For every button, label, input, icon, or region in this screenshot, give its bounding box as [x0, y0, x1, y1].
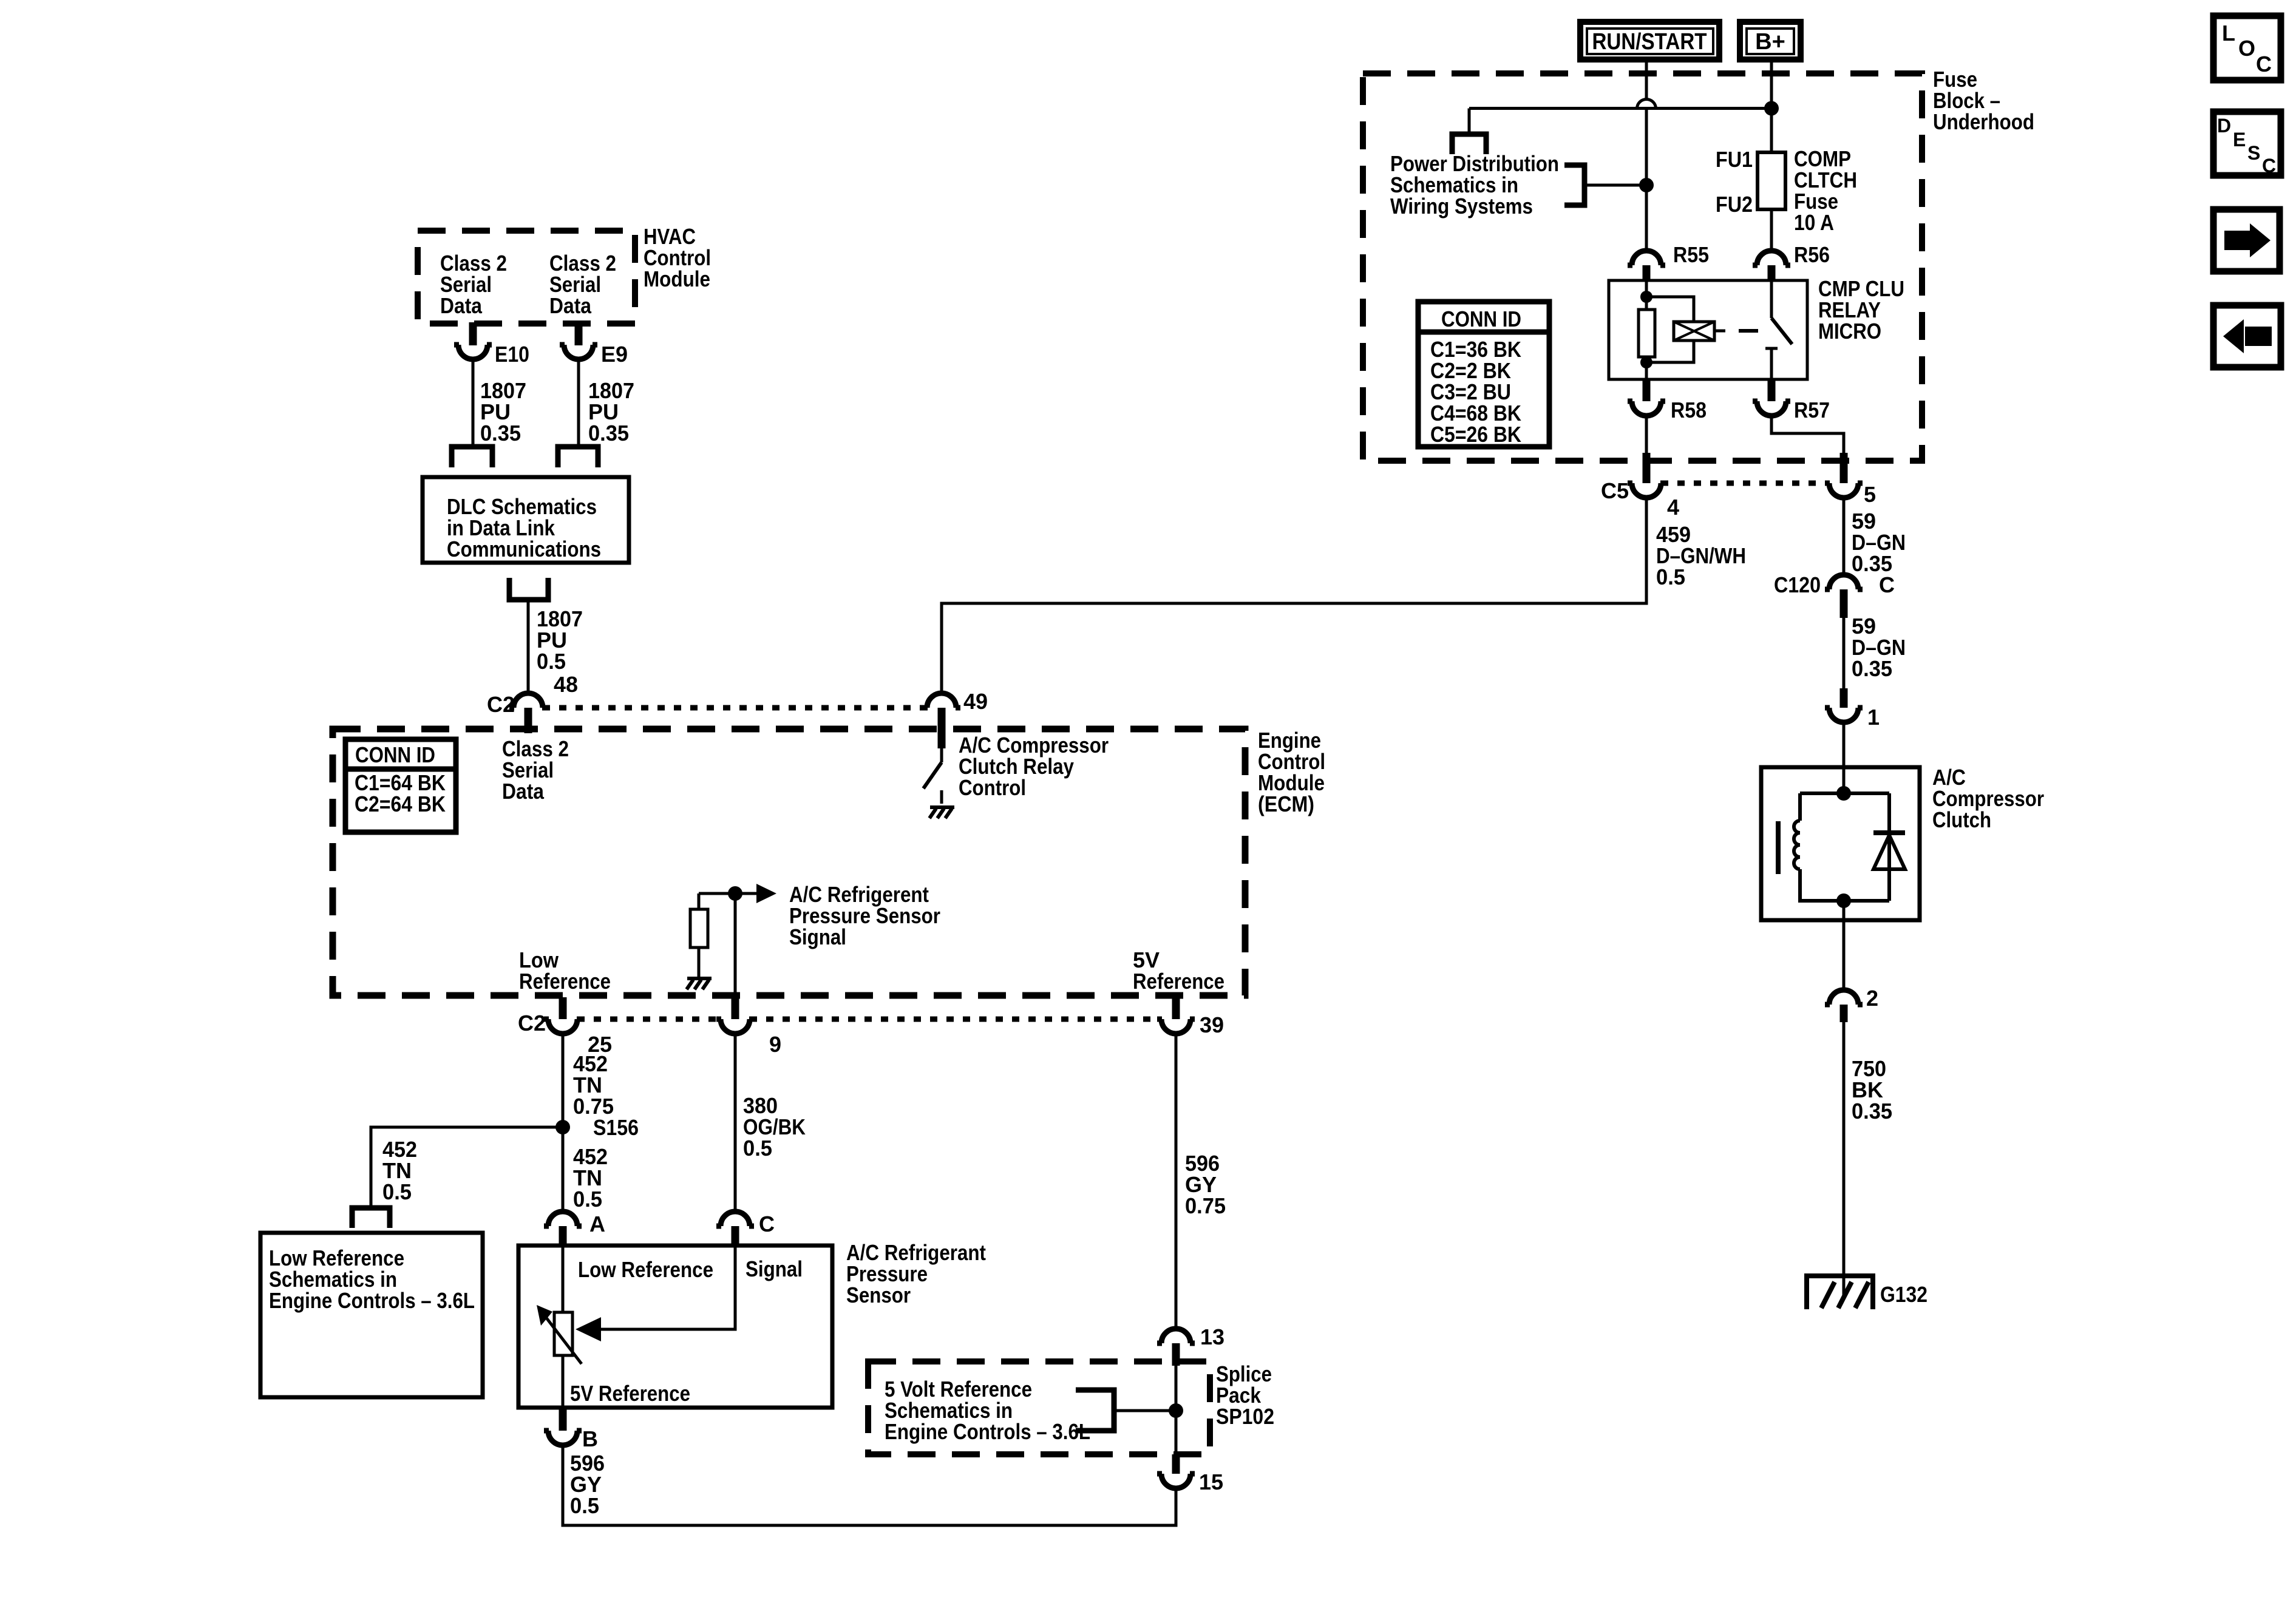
- label wire 59 D-GN 0.35 (upper): [1852, 509, 1906, 576]
- clutch coil loop: [1800, 793, 1889, 901]
- svg-text:0.35: 0.35: [480, 421, 521, 446]
- connector clutch pin 1: [1825, 688, 1863, 722]
- fuse block CONN ID table: [1418, 302, 1549, 447]
- svg-text:CONN ID: CONN ID: [1441, 307, 1521, 331]
- svg-text:FU2: FU2: [1716, 192, 1753, 217]
- svg-text:Reference: Reference: [519, 969, 611, 994]
- connector R57: [1753, 379, 1790, 416]
- svg-text:0.5: 0.5: [382, 1179, 412, 1204]
- label 48: [554, 672, 578, 697]
- relay solenoid symbol: [1674, 322, 1714, 341]
- svg-text:5: 5: [1864, 482, 1876, 507]
- wire RUN/START down (above hop): [1645, 63, 1648, 100]
- svg-text:E9: E9: [601, 342, 628, 367]
- svg-text:15: 15: [1199, 1470, 1223, 1494]
- A/C Refrigerant Pressure Sensor box: [518, 1246, 832, 1408]
- svg-text:Data: Data: [502, 779, 545, 804]
- svg-text:2: 2: [1866, 986, 1878, 1011]
- label 5 Volt Reference Schematics in Engine Controls - 3.6L: [885, 1377, 1090, 1444]
- label Splice Pack SP102: [1216, 1361, 1274, 1429]
- svg-text:E10: E10: [495, 342, 529, 367]
- relay coil junction top: [1640, 291, 1652, 303]
- label C2 (ECM bottom connector): [518, 1011, 546, 1036]
- svg-text:39: 39: [1200, 1012, 1224, 1037]
- svg-text:Engine Controls – 3.6L: Engine Controls – 3.6L: [269, 1288, 475, 1313]
- 5 Volt Reference box (dashed): [868, 1361, 1210, 1454]
- svg-text:Module: Module: [644, 266, 710, 291]
- label A: [589, 1212, 605, 1236]
- svg-text:0.5: 0.5: [573, 1187, 602, 1212]
- svg-text:C: C: [1879, 572, 1895, 597]
- label wire 750 BK 0.35: [1852, 1056, 1892, 1124]
- label wire 380 OG/BK 0.5: [743, 1093, 806, 1161]
- label 5V Reference (sensor): [570, 1381, 690, 1406]
- off-page bracket below DLC: [509, 578, 548, 600]
- label FU2: [1716, 192, 1753, 217]
- clutch top junction: [1836, 786, 1851, 801]
- wire pin1 to clutch box: [1843, 722, 1846, 767]
- svg-text:4: 4: [1667, 495, 1679, 520]
- label wire 596 GY 0.5: [570, 1451, 605, 1518]
- svg-text:0.5: 0.5: [743, 1136, 772, 1161]
- label HVAC Control Module: [644, 224, 711, 291]
- svg-text:C2: C2: [487, 692, 515, 717]
- wire pin13 to pin15: [1175, 1366, 1178, 1454]
- splice S156: [555, 1120, 570, 1134]
- label wire 1807 PU 0.5: [537, 606, 583, 674]
- label wire 59 D-GN 0.35 (lower): [1852, 614, 1906, 681]
- svg-text:O: O: [2238, 36, 2255, 61]
- label Class 2 Serial Data (ECM): [502, 736, 569, 804]
- svg-text:D: D: [2217, 115, 2231, 137]
- connector pin A: [544, 1212, 582, 1246]
- svg-text:Signal: Signal: [746, 1256, 803, 1281]
- label Engine Control Module (ECM): [1258, 728, 1325, 816]
- label 9: [769, 1032, 781, 1057]
- label COMP CLTCH Fuse 10 A: [1794, 146, 1857, 235]
- svg-text:9: 9: [769, 1032, 781, 1057]
- connector face dotted row 9-39: [750, 1017, 1161, 1022]
- connector C120 pin C: [1825, 575, 1863, 618]
- connector R55: [1628, 251, 1665, 281]
- svg-text:R56: R56: [1794, 242, 1830, 267]
- svg-text:Reference: Reference: [1133, 969, 1224, 994]
- off-page bracket (power distribution top): [1452, 134, 1486, 154]
- label C120: [1774, 572, 1821, 597]
- clutch coil windings: [1794, 821, 1800, 869]
- connector pin 49: [923, 693, 960, 748]
- label A/C Refrigerent Pressure Sensor Signal: [789, 882, 940, 949]
- svg-text:C2=64 BK: C2=64 BK: [355, 792, 446, 816]
- label 4: [1667, 495, 1679, 520]
- wire E9 to off-page: [577, 359, 580, 446]
- wire B+ down to fuse: [1770, 63, 1773, 152]
- label 39: [1200, 1012, 1224, 1037]
- fuse COMP CLTCH: [1758, 152, 1785, 209]
- label R58: [1671, 398, 1707, 422]
- svg-text:0.5: 0.5: [537, 649, 566, 674]
- sensor signal arrowhead: [576, 1317, 601, 1341]
- off-page bracket (power distribution side): [1564, 165, 1584, 205]
- label DLC Schematics in Data Link Communications: [447, 494, 601, 561]
- label 25: [588, 1032, 612, 1057]
- connector clutch pin 2: [1825, 990, 1863, 1022]
- wire drop to power distribution bracket: [1468, 109, 1471, 135]
- label G132: [1880, 1282, 1927, 1307]
- DESC icon box: [2213, 112, 2281, 177]
- svg-text:0.75: 0.75: [1185, 1193, 1226, 1218]
- label 1: [1867, 705, 1880, 730]
- label C (C120): [1879, 572, 1895, 597]
- off-page bracket (5 volt reference): [1076, 1390, 1114, 1431]
- label Low Reference (ECM): [519, 947, 611, 994]
- connector pin 15: [1157, 1454, 1195, 1488]
- off-page bracket above DLC (E10): [452, 447, 492, 467]
- svg-text:B: B: [582, 1426, 598, 1451]
- label Signal (sensor): [746, 1256, 803, 1281]
- wire R58 to C5: [1645, 416, 1648, 453]
- wire pin 9 internal: [734, 893, 737, 996]
- back arrow icon box: [2213, 305, 2281, 367]
- connector C5 pin 5: [1825, 453, 1863, 498]
- svg-text:Data: Data: [549, 293, 592, 318]
- next arrow icon box: [2213, 209, 2280, 271]
- connector face dotted row 25-9: [577, 1017, 721, 1022]
- label C: [759, 1212, 775, 1236]
- ECM internal resistor: [690, 893, 708, 977]
- label wire 1807 PU 0.35 (E10): [480, 378, 526, 446]
- connector pin 25: [544, 997, 582, 1034]
- label R55: [1673, 242, 1709, 267]
- A/C Compressor Clutch box: [1761, 767, 1920, 920]
- svg-text:Clutch: Clutch: [1932, 807, 1991, 832]
- clutch feed wire: [1843, 767, 1846, 793]
- label E10: [495, 342, 529, 367]
- label 15: [1199, 1470, 1223, 1494]
- Engine Control Module box (dashed): [333, 729, 1245, 995]
- clutch diode: [1873, 833, 1905, 869]
- ECM driver switch to ground (pin 49): [923, 748, 954, 818]
- connector pin 39: [1157, 997, 1195, 1034]
- svg-text:SP102: SP102: [1216, 1404, 1274, 1429]
- label Fuse Block - Underhood: [1933, 67, 2034, 134]
- svg-text:FU1: FU1: [1716, 147, 1753, 172]
- svg-text:Low Reference: Low Reference: [578, 1257, 713, 1282]
- svg-text:CONN ID: CONN ID: [355, 742, 435, 767]
- svg-text:RUN/START: RUN/START: [1592, 29, 1707, 55]
- connector pin 13: [1157, 1329, 1195, 1366]
- label C5: [1601, 478, 1629, 503]
- connector pin 9: [716, 997, 754, 1034]
- svg-text:C: C: [759, 1212, 775, 1236]
- label 5V Reference (ECM): [1133, 947, 1224, 994]
- label wire 1807 PU 0.35 (E9): [588, 378, 634, 446]
- label A/C Refrigerant Pressure Sensor: [846, 1240, 986, 1307]
- svg-text:S156: S156: [593, 1115, 639, 1140]
- connector pin B: [544, 1408, 582, 1445]
- svg-text:C: C: [2262, 155, 2276, 177]
- wire branch to low reference off-page: [371, 1127, 563, 1208]
- sensor signal internal wire: [601, 1246, 735, 1329]
- svg-text:Wiring Systems: Wiring Systems: [1390, 194, 1533, 219]
- wire 750 BK to ground: [1843, 1022, 1846, 1295]
- relay actuating dash: [1739, 329, 1758, 333]
- relay coil resistor: [1639, 310, 1655, 357]
- off-page bracket above Low Reference box: [352, 1208, 390, 1228]
- wire bracket to splice: [1114, 1409, 1176, 1412]
- potentiometer (sensor): [537, 1246, 582, 1408]
- svg-text:C5: C5: [1601, 478, 1629, 503]
- CMP CLU relay box: [1609, 280, 1807, 379]
- label Low Reference (sensor): [578, 1257, 713, 1282]
- label 5: [1864, 482, 1876, 507]
- ECM CONN ID table: [345, 739, 456, 832]
- wire R57 to pin 5: [1771, 416, 1844, 453]
- svg-text:MICRO: MICRO: [1818, 319, 1881, 344]
- label Class 2 Serial Data (HVAC right): [549, 251, 616, 318]
- connector face line C2 (dotted row): [543, 705, 927, 711]
- label 2: [1866, 986, 1878, 1011]
- svg-text:Communications: Communications: [447, 537, 601, 561]
- relay solenoid lead: [1714, 330, 1725, 333]
- Fuse Block - Underhood box (dashed): [1363, 73, 1922, 461]
- label Power Distribution Schematics in Wiring Systems: [1390, 151, 1559, 219]
- wire 459 D-GN/WH to ECM pin 49: [942, 498, 1646, 693]
- svg-text:C120: C120: [1774, 572, 1821, 597]
- svg-text:Sensor: Sensor: [846, 1283, 911, 1307]
- ground G132: [1807, 1276, 1873, 1309]
- relay coil parallel loop: [1646, 297, 1694, 362]
- relay coil junction bottom: [1640, 356, 1652, 368]
- svg-text:Signal: Signal: [789, 924, 846, 949]
- svg-text:R55: R55: [1673, 242, 1709, 267]
- label E9: [601, 342, 628, 367]
- label R56: [1794, 242, 1830, 267]
- label wire 452 TN 0.75: [573, 1051, 614, 1119]
- svg-text:10 A: 10 A: [1794, 210, 1834, 235]
- svg-text:R57: R57: [1794, 398, 1830, 422]
- ECM internal resistor ground: [687, 978, 712, 989]
- label A/C Compressor Clutch Relay Control: [959, 733, 1109, 800]
- connector R56: [1753, 251, 1790, 281]
- label Class 2 Serial Data (HVAC left): [440, 251, 507, 318]
- LOC icon box: [2213, 16, 2281, 80]
- wire 452 TN pin25 to S156 to A: [562, 1034, 565, 1212]
- wire clutch to pin 2: [1843, 920, 1846, 990]
- junction dot on RUN/START wire: [1639, 178, 1654, 192]
- label CMP CLU RELAY MICRO: [1818, 276, 1904, 344]
- connector pin C: [716, 1212, 754, 1246]
- svg-text:0.35: 0.35: [1852, 656, 1892, 681]
- connector face dotted row C5: [1661, 481, 1829, 486]
- svg-text:B+: B+: [1755, 29, 1785, 55]
- label wire 596 GY 0.75: [1185, 1151, 1226, 1218]
- svg-text:0.5: 0.5: [1656, 564, 1685, 589]
- svg-text:49: 49: [963, 689, 988, 714]
- splice SP102 junction: [1169, 1403, 1183, 1418]
- svg-text:C5=26 BK: C5=26 BK: [1430, 422, 1521, 447]
- junction dot on B+ wire: [1764, 101, 1779, 116]
- label Low Reference Schematics in Engine Controls - 3.6L: [269, 1246, 475, 1313]
- label C2 (ECM top connector): [487, 692, 515, 717]
- HVAC Control Module box (dashed): [418, 231, 635, 324]
- wire E10 to off-page: [472, 359, 475, 446]
- power distribution horizontal wire: [1469, 107, 1771, 110]
- wire RUN/START down (below hop): [1645, 110, 1648, 251]
- wire fuse to R56: [1770, 209, 1773, 251]
- label A/C Compressor Clutch: [1932, 765, 2044, 832]
- svg-text:Underhood: Underhood: [1933, 109, 2034, 134]
- svg-text:Engine Controls – 3.6L: Engine Controls – 3.6L: [885, 1419, 1090, 1444]
- off-page bracket above DLC (E9): [558, 447, 598, 467]
- label 49: [963, 689, 988, 714]
- wire hop over power line: [1637, 99, 1656, 109]
- signal arrow: [756, 884, 776, 903]
- svg-text:Control: Control: [959, 775, 1026, 800]
- connector pin 48: [509, 693, 547, 733]
- B+ feed box: [1740, 22, 1801, 59]
- svg-text:C2: C2: [518, 1011, 546, 1036]
- connector R58: [1628, 379, 1665, 416]
- svg-text:C: C: [2256, 52, 2272, 76]
- label FU1: [1716, 147, 1753, 172]
- svg-text:L: L: [2222, 21, 2235, 46]
- label 13: [1200, 1324, 1224, 1349]
- svg-text:5V Reference: 5V Reference: [570, 1381, 690, 1406]
- svg-text:E: E: [2233, 129, 2246, 151]
- svg-text:Data: Data: [440, 293, 483, 318]
- wire 596 GY B to pin 15: [563, 1445, 1176, 1525]
- label wire 452 TN 0.5 (below S156): [573, 1144, 608, 1212]
- RUN/START feed box: [1580, 22, 1719, 59]
- svg-text:A: A: [589, 1212, 605, 1236]
- label wire 459 D-GN/WH 0.5: [1656, 522, 1746, 589]
- connector E10: [454, 322, 492, 359]
- clutch coil core bar: [1776, 821, 1781, 874]
- svg-text:1: 1: [1867, 705, 1880, 730]
- label S156: [593, 1115, 639, 1140]
- wire 596 GY pin39 to pin13: [1175, 1034, 1178, 1329]
- wire DLC to ECM pin 48: [527, 600, 530, 693]
- svg-text:13: 13: [1200, 1324, 1224, 1349]
- label B: [582, 1426, 598, 1451]
- svg-text:0.35: 0.35: [588, 421, 629, 446]
- clutch bottom junction: [1836, 893, 1851, 908]
- svg-text:0.35: 0.35: [1852, 1099, 1892, 1124]
- label wire 452 TN 0.5 (branch): [382, 1137, 417, 1204]
- wire C120 to pin 1: [1843, 618, 1846, 688]
- relay switch: [1765, 280, 1792, 379]
- connector C5 pin 4: [1628, 453, 1665, 498]
- svg-text:G132: G132: [1880, 1282, 1927, 1307]
- svg-text:0.5: 0.5: [570, 1493, 599, 1518]
- junction dot pin 9 node: [728, 886, 742, 901]
- clutch return wire: [1843, 901, 1846, 920]
- connector E9: [560, 322, 597, 359]
- wire 380 OG/BK pin9 to C: [734, 1034, 737, 1212]
- relay coil leg wire: [1645, 280, 1648, 379]
- wire pin5 to C120: [1843, 498, 1846, 575]
- Low Reference Schematics box: [260, 1233, 483, 1397]
- ECM internal signal node wire: [699, 892, 756, 895]
- svg-text:48: 48: [554, 672, 578, 697]
- svg-text:S: S: [2247, 142, 2260, 164]
- wire bracket to RUN/START wire: [1584, 184, 1646, 187]
- label R57: [1794, 398, 1830, 422]
- svg-text:R58: R58: [1671, 398, 1707, 422]
- DLC Schematics box: [423, 477, 629, 563]
- svg-text:(ECM): (ECM): [1258, 792, 1314, 816]
